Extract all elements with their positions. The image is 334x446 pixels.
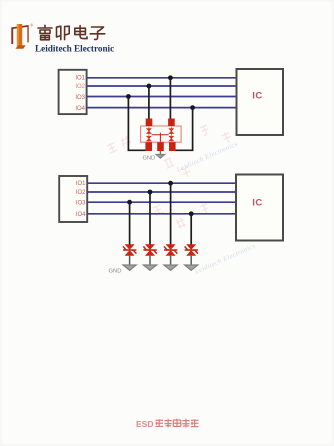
svg-text:IC: IC xyxy=(252,198,263,209)
IC U3 box xyxy=(236,175,283,241)
svg-text:ESD: ESD xyxy=(136,419,153,429)
U1 internal GND tie xyxy=(152,133,169,142)
wire D1 to ground xyxy=(129,256,131,268)
U1 internal diode pair right xyxy=(169,127,174,142)
watermark pink glyphs (faint CJK marks) xyxy=(107,125,233,230)
logo mark xyxy=(11,24,28,49)
wire IO3 drop to U1 pin3 xyxy=(128,97,146,151)
wire IO4 (bottom) xyxy=(87,213,236,215)
ground G3 xyxy=(164,265,177,270)
junction on IO3 (top) xyxy=(126,94,131,99)
TVS diode D4 xyxy=(185,244,198,255)
svg-text:IC: IC xyxy=(252,91,263,102)
wire IO2 (bottom) xyxy=(87,191,236,193)
svg-text:GND: GND xyxy=(143,156,156,162)
junction on IO4 (top) xyxy=(190,105,195,110)
U1 pin 1 top-left xyxy=(146,119,153,127)
wire U1 GND stub xyxy=(159,151,161,155)
wire IO3 (bottom) xyxy=(87,201,236,203)
junction on IO1 (top) xyxy=(168,75,173,80)
wire drop to D3 xyxy=(170,183,172,244)
svg-text:IO2: IO2 xyxy=(75,84,85,90)
wire IO2 drop to U1 pin1 xyxy=(148,86,150,120)
ground G2 xyxy=(143,265,156,270)
U1 pin 3 bottom-left xyxy=(145,142,152,151)
TVS diode D2 xyxy=(143,244,156,255)
svg-text:IO2: IO2 xyxy=(76,190,86,196)
svg-text:IO1: IO1 xyxy=(76,181,86,187)
junction on IO1 (bottom) xyxy=(168,181,173,186)
svg-text:®: ® xyxy=(30,22,33,27)
wire drop to D4 xyxy=(190,214,192,245)
ground G4 xyxy=(185,265,198,270)
IC U2 box xyxy=(237,69,284,135)
junction on IO2 (bottom) xyxy=(148,190,153,195)
U1 internal diode pair left xyxy=(147,127,152,142)
svg-text:IO4: IO4 xyxy=(75,106,85,112)
U1 pin 2 top-right xyxy=(168,119,175,127)
svg-text:IO1: IO1 xyxy=(75,76,85,82)
logo Chinese name (drawn strokes) xyxy=(38,25,105,40)
wire IO1 (bottom) xyxy=(87,182,236,184)
junction on IO3 (bottom) xyxy=(127,200,132,205)
wire IO3 (top) xyxy=(87,96,237,98)
wire IO2 (top) xyxy=(87,85,237,87)
svg-text:Leiditech Electronic: Leiditech Electronic xyxy=(35,44,114,54)
svg-text:IO3: IO3 xyxy=(76,200,86,206)
wire IO4 (top) xyxy=(87,107,237,109)
ESD array U1 body xyxy=(141,126,182,142)
U1 pin 4 bottom-center GND xyxy=(157,142,164,151)
wire D3 to ground xyxy=(170,256,172,268)
wire IO1 drop to U1 pin5 xyxy=(169,78,171,120)
junction on IO2 (top) xyxy=(147,84,152,89)
svg-text:IO4: IO4 xyxy=(76,212,86,218)
U1 pin 5 bottom-right xyxy=(169,142,176,151)
wire drop to D1 xyxy=(129,202,131,244)
TVS diode D1 xyxy=(123,244,136,255)
wire D2 to ground xyxy=(149,256,151,268)
svg-text:IO3: IO3 xyxy=(75,95,85,101)
connector box J2 xyxy=(59,176,87,222)
wire drop to D2 xyxy=(149,192,151,245)
wire D4 to ground xyxy=(190,256,192,268)
ground G1 xyxy=(123,265,136,270)
connector box J1 xyxy=(59,70,87,114)
wire IO4 drop to U1 pin4 xyxy=(175,108,193,151)
junction on IO4 (bottom) xyxy=(189,211,194,216)
TVS diode D3 xyxy=(164,244,177,255)
svg-text:GND: GND xyxy=(109,269,122,275)
caption ESD protection (pink) xyxy=(136,419,198,429)
ground (top circuit) xyxy=(156,154,165,158)
wire IO1 (top) xyxy=(87,77,237,79)
